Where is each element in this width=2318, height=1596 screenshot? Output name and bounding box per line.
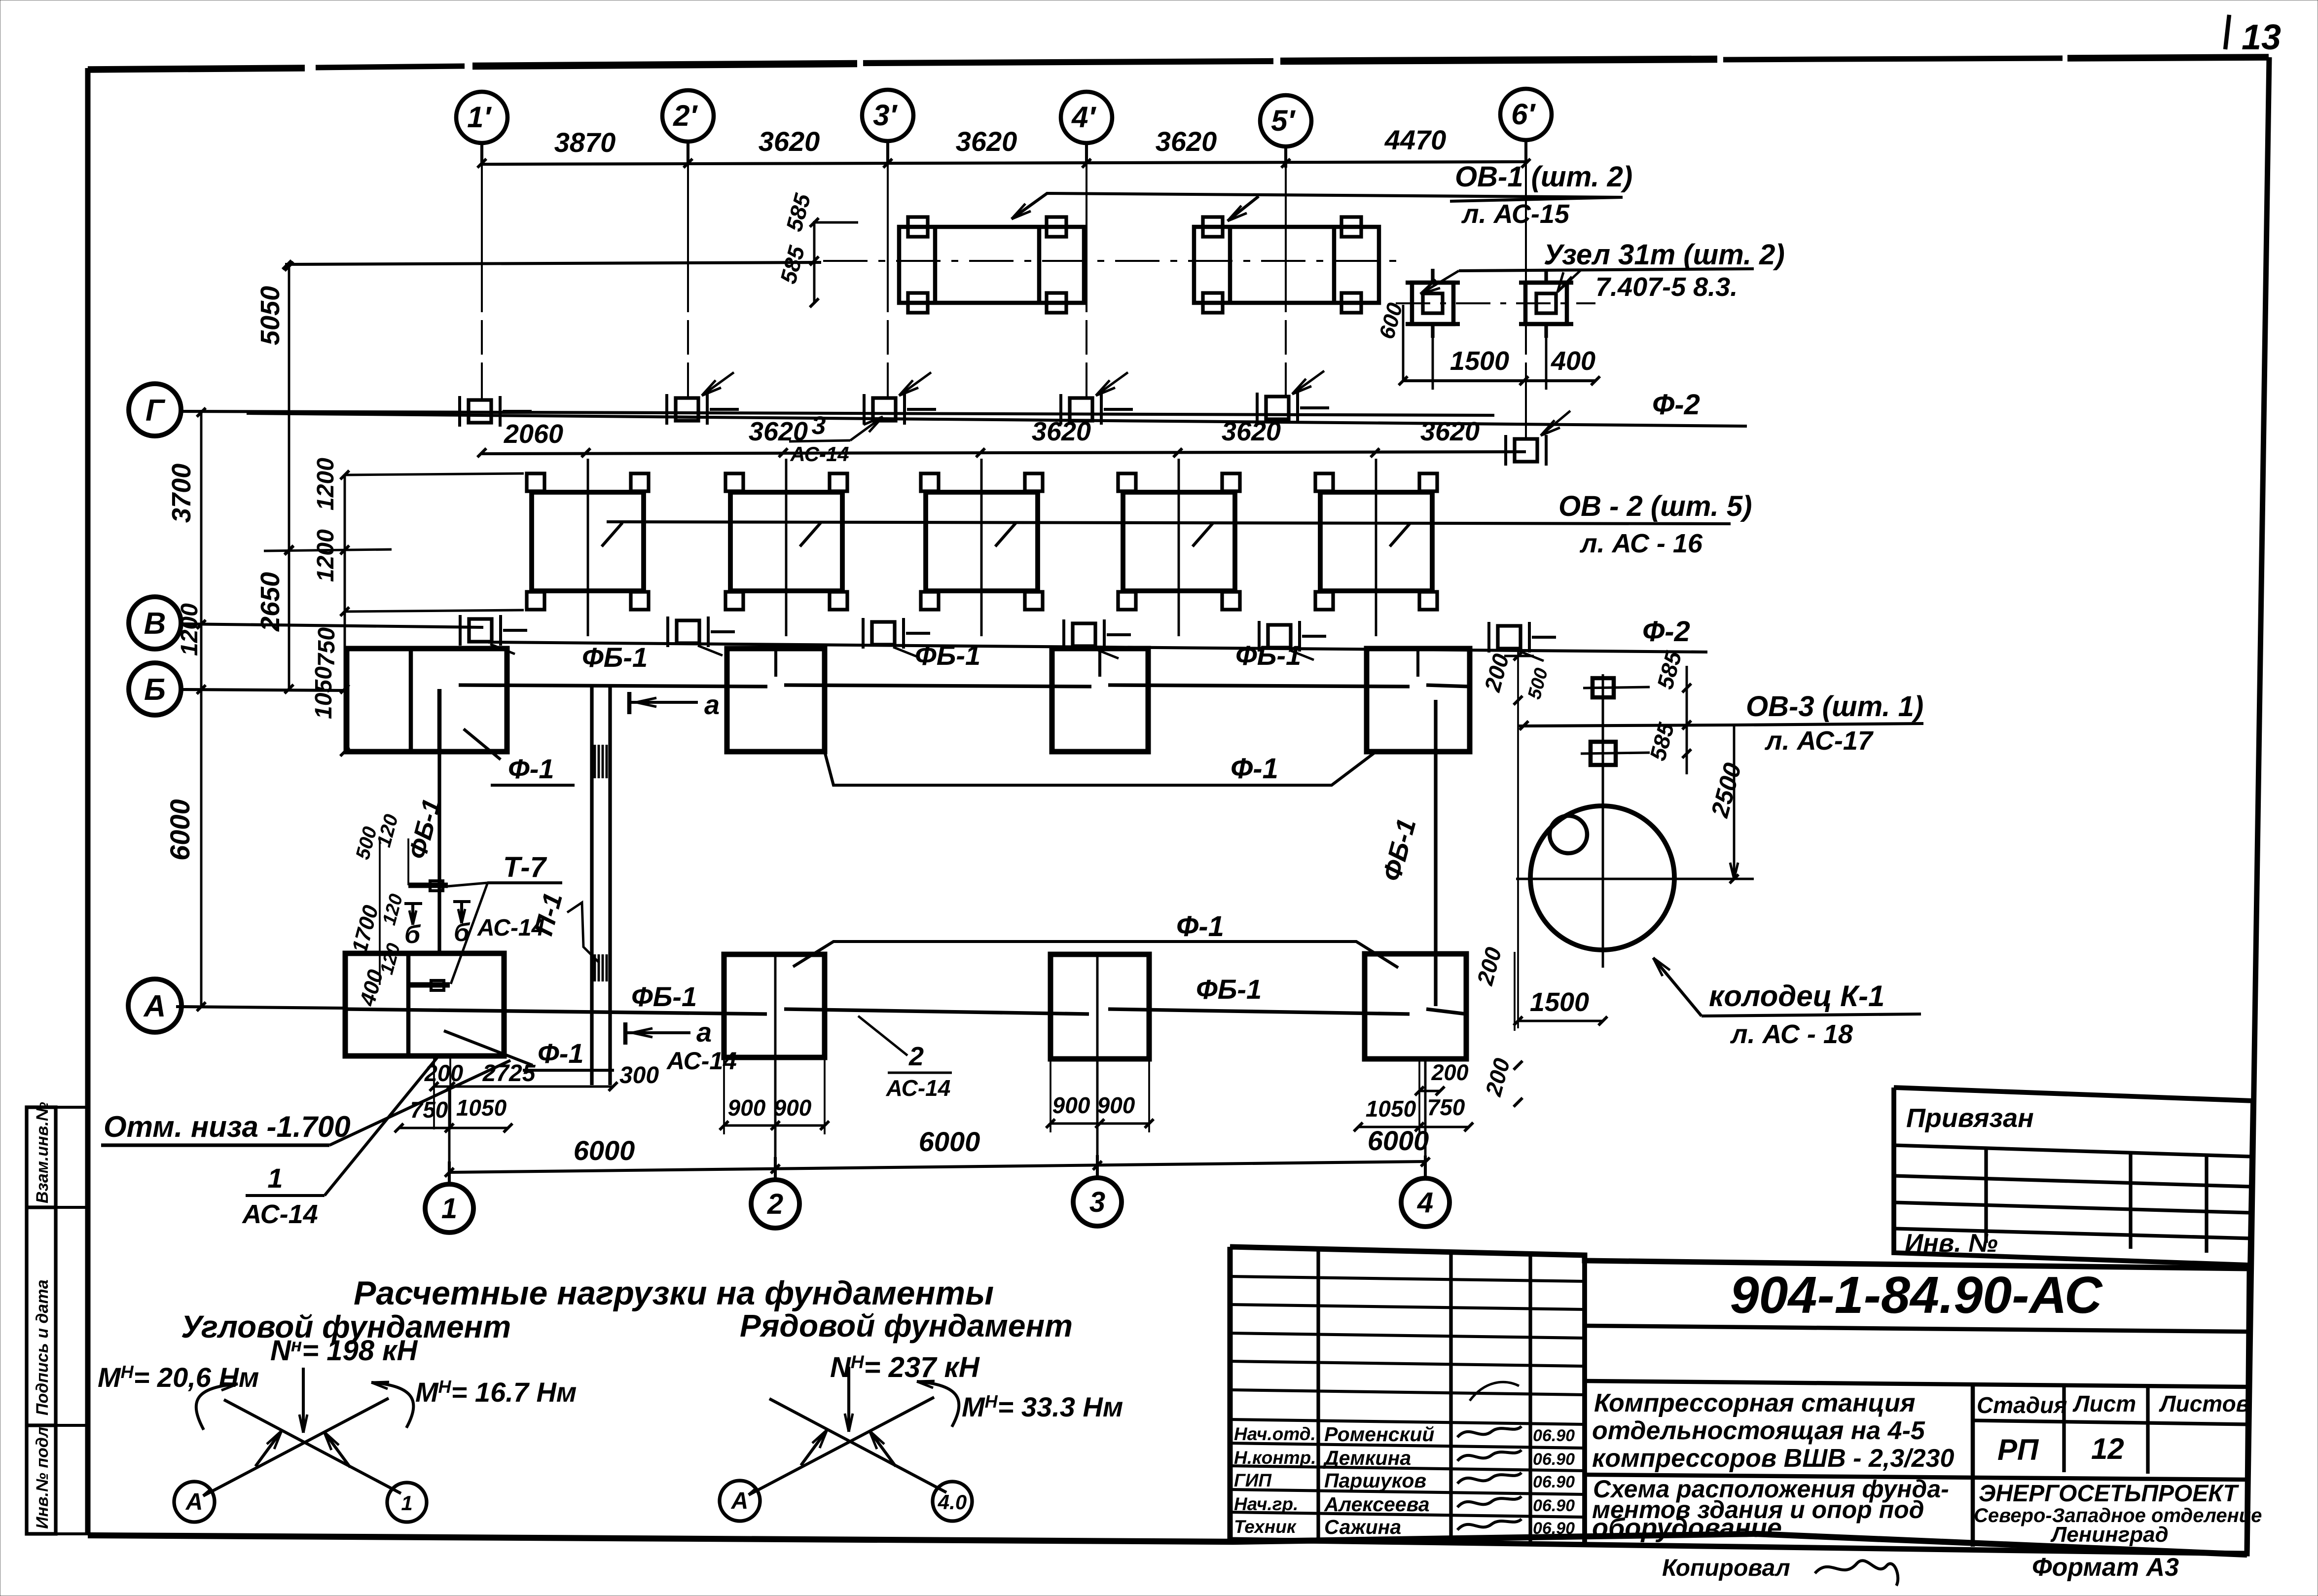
- svg-text:6000: 6000: [919, 1126, 980, 1157]
- load diagram row foundation (А/4.0): [769, 1399, 946, 1492]
- svg-text:б: б: [454, 918, 471, 947]
- axis line В stub: [181, 624, 483, 627]
- svg-text:06.90: 06.90: [1533, 1519, 1575, 1538]
- sidebar connector lines: [56, 1106, 88, 1109]
- svg-text:Техник: Техник: [1234, 1517, 1297, 1537]
- svg-text:а: а: [696, 1016, 712, 1048]
- axis circle 2' top: [662, 90, 714, 142]
- б arrow 1: [411, 904, 414, 925]
- svg-text:л. АС - 16: л. АС - 16: [1579, 529, 1703, 558]
- foundation Ф-1 corner (А/1): [345, 953, 504, 1056]
- svg-text:Ф-1: Ф-1: [538, 1038, 584, 1069]
- svg-text:Ленинград: Ленинград: [2050, 1523, 2169, 1547]
- title block vertical x2942: [1449, 1253, 1452, 1543]
- svg-text:06.90: 06.90: [1533, 1450, 1575, 1469]
- sheet border left: [85, 68, 91, 1535]
- axis circle 4' top: [1061, 92, 1112, 143]
- svg-text:Ф-2: Ф-2: [1642, 616, 1690, 648]
- svg-text:ФБ-1: ФБ-1: [1196, 974, 1262, 1005]
- svg-text:ОВ - 2 (шт. 5): ОВ - 2 (шт. 5): [1558, 490, 1752, 522]
- load diagram corner foundation (А/1): [224, 1400, 401, 1493]
- sidebar divider 2: [27, 1423, 56, 1427]
- svg-text:л. АС-17: л. АС-17: [1764, 726, 1874, 756]
- svg-text:Ф-2: Ф-2: [1652, 389, 1700, 421]
- left dim line x408: [200, 410, 203, 1007]
- dim 200/2725/300 line y2203: [434, 1086, 613, 1088]
- svg-text:Б: Б: [144, 673, 166, 707]
- ОВ-1 label leader line: [1012, 193, 1623, 219]
- svg-text:Взам.инв.№: Взам.инв.№: [33, 1102, 52, 1203]
- axis circle &#1042; left: [129, 597, 181, 649]
- row Г dim line y918: [482, 452, 1526, 454]
- dim 1050/750 under А4: [1358, 1126, 1469, 1128]
- Т-7 embedded plate lower: [408, 982, 450, 988]
- beam line ФБ-1 row Б: [459, 685, 767, 687]
- arc arrow right (М 33.3): [917, 1381, 959, 1427]
- узел leader 1: [1420, 271, 1459, 294]
- axis circle 4 bottom: [1401, 1178, 1449, 1227]
- squiggle curve in sig area: [1470, 1382, 1519, 1401]
- svg-text:300: 300: [619, 1062, 659, 1088]
- anchor bolt row Г axis 6': [1515, 439, 1537, 462]
- svg-text:2060: 2060: [504, 419, 563, 449]
- leader to anchor row В: [1094, 649, 1119, 658]
- dim 6000 line bottom: [449, 1161, 1425, 1172]
- svg-text:Ф-1: Ф-1: [1231, 753, 1278, 785]
- svg-text:6000: 6000: [574, 1135, 635, 1166]
- svg-text:ОВ-1 (шт. 2): ОВ-1 (шт. 2): [1455, 161, 1632, 193]
- колодец cross vertical: [1602, 674, 1604, 968]
- узел leader 2: [1557, 270, 1581, 292]
- svg-text:л. АС - 18: л. АС - 18: [1730, 1019, 1853, 1049]
- узел 31т anchor 2: [1525, 283, 1567, 324]
- svg-text:4.0: 4.0: [938, 1490, 967, 1514]
- svg-text:4′: 4′: [1071, 101, 1096, 134]
- svg-text:ФБ-1: ФБ-1: [915, 640, 980, 671]
- dim tick line y963 to small square: [345, 473, 524, 475]
- svg-text:Ф-1: Ф-1: [508, 753, 554, 784]
- stadia header cells: [1973, 1420, 2249, 1424]
- axis 4' vertical line: [1086, 164, 1087, 398]
- svg-text:400: 400: [1551, 346, 1595, 376]
- svg-text:6000: 6000: [164, 799, 195, 861]
- vertical beam ФБ-1 axis4 Б-А: [1434, 700, 1437, 1006]
- svg-text:Формат А3: Формат А3: [2032, 1553, 2179, 1582]
- foundation Ф-1 (А/2): [724, 954, 825, 1057]
- svg-text:Лист: Лист: [2072, 1391, 2136, 1416]
- leader arrow to anchor row Г: [899, 372, 931, 396]
- svg-text:6′: 6′: [1511, 98, 1536, 131]
- svg-text:2: 2: [767, 1188, 783, 1220]
- arc arrow left (М 20,6): [196, 1384, 238, 1430]
- dim tick line y1115: [264, 549, 392, 551]
- svg-text:АС-14: АС-14: [666, 1047, 737, 1075]
- svg-text:900: 900: [728, 1095, 766, 1121]
- svg-text:ФБ-1: ФБ-1: [631, 981, 697, 1012]
- equipment ОВ-2 square #5: [1320, 492, 1432, 591]
- узел 31т anchor 1: [1412, 283, 1453, 324]
- svg-text:ГИП: ГИП: [1234, 1470, 1272, 1490]
- anchor bolt Ф-2 row В #1: [469, 619, 492, 642]
- left dim line x586: [288, 264, 290, 689]
- leader to anchor row В: [698, 646, 723, 655]
- svg-text:РП: РП: [1997, 1433, 2039, 1466]
- svg-text:13: 13: [2242, 18, 2281, 57]
- axis circle 1 bottom: [425, 1184, 473, 1233]
- anchor bolt Ф-2 row Г #2: [676, 398, 698, 421]
- leader arrow to anchor row Г: [702, 372, 734, 396]
- leader arrow to anchor 6' row Г: [1541, 411, 1570, 435]
- svg-text:ФБ-1: ФБ-1: [582, 642, 648, 673]
- leader to anchor row В: [490, 644, 515, 654]
- ОВ-3 connector vertical: [1602, 697, 1604, 805]
- svg-text:200: 200: [424, 1060, 463, 1086]
- svg-text:оборудование: оборудование: [1592, 1513, 1782, 1543]
- axis 5' vertical line: [1285, 164, 1287, 396]
- svg-text:3620: 3620: [956, 126, 1017, 157]
- svg-text:Копировал: Копировал: [1662, 1555, 1790, 1581]
- axis line Б stub: [180, 689, 347, 690]
- foundation Ф-1 (Б/2): [727, 649, 825, 752]
- svg-text:750: 750: [410, 1097, 448, 1123]
- dim 900/900 under А3: [1050, 1123, 1149, 1125]
- axis 6' vertical line: [1525, 164, 1527, 438]
- anchor bolt Ф-2 row Г #3: [873, 398, 896, 421]
- axis 4 vertical line: [1424, 1059, 1427, 1178]
- svg-text:Нач.гр.: Нач.гр.: [1234, 1494, 1298, 1514]
- Ф-1 label foundation А1: [444, 1031, 533, 1065]
- axis circle 6' top: [1500, 89, 1552, 140]
- dim 200 small under А4: [1419, 1090, 1440, 1092]
- anchor bolt Ф-2 row В #3: [872, 622, 895, 645]
- svg-text:А: А: [143, 989, 166, 1023]
- equipment ОВ-2 square #1: [532, 492, 644, 591]
- axis 2 vertical line: [774, 954, 777, 1180]
- svg-text:1050: 1050: [1366, 1096, 1416, 1122]
- leader to anchor row В: [1289, 650, 1314, 660]
- svg-text:750: 750: [314, 627, 340, 667]
- svg-text:900: 900: [1052, 1092, 1090, 1118]
- svg-text:АС-14: АС-14: [886, 1075, 951, 1101]
- колодец small circle: [1550, 816, 1587, 853]
- foundation Ф-1 (Б/3): [1052, 649, 1148, 752]
- svg-text:3620: 3620: [759, 126, 820, 157]
- axis circle &#1041; left: [129, 663, 181, 715]
- ОВ-1 label leader branch 2: [1228, 196, 1259, 221]
- anchor bolt Ф-2 row В #4: [1073, 623, 1095, 646]
- svg-text:Отм. низа -1.700: Отм. низа -1.700: [104, 1110, 351, 1143]
- axis line А stub: [176, 1007, 345, 1008]
- svg-text:3620: 3620: [1032, 417, 1091, 446]
- anchor bolt Ф-2 row В #2: [677, 620, 699, 643]
- dim 900/900 under А2: [724, 1124, 825, 1127]
- equipment ОВ-1 unit 1 outline: [899, 227, 1084, 303]
- Привязан table outline: [1894, 1088, 2253, 1265]
- svg-text:ОВ-3 (шт. 1): ОВ-3 (шт. 1): [1746, 690, 1923, 723]
- svg-text:2: 2: [908, 1042, 924, 1071]
- svg-text:Стадия: Стадия: [1977, 1392, 2067, 1418]
- svg-text:3: 3: [1089, 1186, 1105, 1218]
- svg-text:АС-14: АС-14: [477, 915, 544, 941]
- svg-text:Н.контр.: Н.контр.: [1234, 1448, 1316, 1468]
- svg-text:200: 200: [1431, 1060, 1468, 1085]
- svg-text:3700: 3700: [167, 464, 196, 523]
- svg-text:ЭНЕРГОСЕТЬПРОЕКТ: ЭНЕРГОСЕТЬПРОЕКТ: [1979, 1481, 2239, 1507]
- foundation Б2 centre stub: [774, 649, 777, 677]
- equipment ОВ-1 unit 2 outline: [1194, 227, 1379, 303]
- svg-text:1500: 1500: [1450, 346, 1509, 376]
- Ф-2 leader line row Г: [247, 413, 1747, 426]
- Ф-2 leader line row В: [488, 642, 1707, 652]
- title block vertical x3103: [1528, 1254, 1532, 1544]
- svg-text:Т-7: Т-7: [503, 851, 547, 883]
- svg-text:Рядовой фундамент: Рядовой фундамент: [740, 1308, 1073, 1343]
- divider under stadia: [1585, 1475, 2249, 1480]
- axis circle 3 bottom: [1073, 1178, 1122, 1226]
- svg-text:06.90: 06.90: [1533, 1473, 1575, 1491]
- axis 3 vertical line: [1096, 954, 1099, 1178]
- svg-text:Нач.отд.: Нач.отд.: [1234, 1424, 1316, 1444]
- anchor bolt Ф-2 row Г #4: [1070, 398, 1092, 421]
- sheet border right: [2247, 57, 2269, 1555]
- svg-text:1: 1: [267, 1162, 283, 1194]
- dim 750/1050 under А1: [399, 1127, 508, 1129]
- vertical split project/stadia: [1971, 1383, 1975, 1475]
- svg-text:Подпись и дата: Подпись и дата: [33, 1279, 52, 1415]
- svg-text:компрессоров ВШВ - 2,3/230: компрессоров ВШВ - 2,3/230: [1592, 1444, 1954, 1473]
- svg-text:А: А: [185, 1489, 203, 1515]
- organization cell split: [1971, 1475, 1975, 1547]
- sidebar box: [27, 1107, 56, 1534]
- section cut а lower flag: [623, 1022, 628, 1045]
- axis circle &#1040; left: [128, 979, 181, 1032]
- title block signature rows: [1230, 1276, 1585, 1281]
- svg-text:5′: 5′: [1271, 104, 1296, 137]
- svg-text:Сажина: Сажина: [1324, 1516, 1401, 1538]
- svg-text:900: 900: [1097, 1092, 1135, 1118]
- foundation Б4 centre stub: [1416, 649, 1419, 677]
- svg-text:А: А: [731, 1488, 749, 1514]
- svg-text:Алексеева: Алексеева: [1324, 1493, 1430, 1516]
- title block vertical x2673: [1316, 1250, 1320, 1541]
- б arrow 2: [460, 902, 463, 923]
- svg-text:900: 900: [774, 1095, 812, 1121]
- axis circle 3' top: [862, 90, 913, 141]
- svg-text:3′: 3′: [873, 99, 898, 132]
- equipment ОВ-2 square #4: [1123, 492, 1235, 591]
- Ф-1 trapezoid leader row А: [793, 942, 1398, 968]
- svg-text:отдельностоящая на 4-5: отдельностоящая на 4-5: [1592, 1416, 1925, 1445]
- svg-text:3620: 3620: [1222, 417, 1281, 446]
- foundation Б3 centre stub: [1098, 649, 1101, 677]
- svg-text:а: а: [704, 689, 720, 720]
- sidebar divider 1: [27, 1205, 56, 1209]
- svg-text:12: 12: [2091, 1432, 2124, 1465]
- узел dim line 1500/400: [1403, 379, 1595, 382]
- svg-text:Привязан: Привязан: [1906, 1103, 2034, 1133]
- ОВ-1 dim line x1651 585/585: [813, 221, 816, 304]
- horizontal ref line y536: [285, 262, 821, 264]
- svg-text:750: 750: [1427, 1094, 1465, 1120]
- anchor bolt Ф-2 row Г #1: [469, 400, 491, 423]
- svg-text:3620: 3620: [1420, 417, 1480, 446]
- svg-text:4470: 4470: [1384, 124, 1447, 155]
- ОВ-3 small square lower: [1591, 742, 1616, 765]
- svg-text:4: 4: [1417, 1187, 1433, 1219]
- axis circle 2 bottom: [751, 1180, 799, 1228]
- foundation Ф-1 (А/3): [1050, 954, 1149, 1059]
- foundation Ф-1 (Б/4): [1367, 649, 1470, 752]
- svg-text:колодец К-1: колодец К-1: [1709, 979, 1884, 1013]
- axis line Г: [181, 411, 1494, 415]
- svg-text:1: 1: [441, 1193, 457, 1225]
- svg-text:7.407-5 8.3.: 7.407-5 8.3.: [1595, 272, 1738, 302]
- svg-text:1200: 1200: [313, 529, 339, 582]
- anchor bolt Ф-2 row Г #5: [1266, 397, 1289, 419]
- колодец К-1 circle: [1530, 806, 1674, 950]
- axis 2' vertical line: [687, 164, 689, 398]
- svg-text:5050: 5050: [255, 286, 285, 345]
- svg-text:1′: 1′: [467, 101, 492, 134]
- dim 1500 колодец: [1518, 1020, 1603, 1022]
- svg-text:2650: 2650: [255, 572, 285, 632]
- dim tick line y1240 to small square: [345, 610, 524, 612]
- svg-text:Паршуков: Паршуков: [1324, 1469, 1426, 1492]
- svg-text:6000: 6000: [1368, 1125, 1429, 1156]
- svg-text:АС-14: АС-14: [790, 442, 849, 466]
- arc arrow right (М 16.7): [371, 1382, 413, 1428]
- title block outline: [1230, 1247, 2249, 1554]
- П-1 channel vertical lines: [590, 686, 593, 1085]
- svg-text:2725: 2725: [482, 1060, 536, 1087]
- svg-text:Демкина: Демкина: [1323, 1447, 1411, 1469]
- leader arrow to anchor row Г: [1292, 371, 1324, 394]
- axis 3' vertical line: [887, 164, 889, 398]
- axis circle &#1043; left: [129, 384, 181, 436]
- Ф-1 label foundation Б1: [464, 729, 501, 760]
- svg-text:АС-14: АС-14: [241, 1199, 318, 1229]
- axis 1 vertical line: [448, 1087, 451, 1185]
- svg-text:3870: 3870: [554, 127, 616, 158]
- anchor bolt Ф-2 row В #6: [1498, 626, 1521, 649]
- svg-text:1050: 1050: [311, 666, 337, 719]
- svg-text:3: 3: [812, 411, 826, 440]
- svg-text:06.90: 06.90: [1533, 1496, 1575, 1515]
- svg-text:Компрессорная станция: Компрессорная станция: [1594, 1389, 1916, 1417]
- svg-text:1500: 1500: [1530, 987, 1589, 1017]
- anchor bolt Ф-2 row В #5: [1268, 625, 1291, 648]
- axis circle 1' top: [456, 92, 507, 143]
- Т-7 embedded plate upper: [408, 883, 448, 888]
- ОВ-3 small square upper: [1593, 678, 1614, 697]
- left dim line x699: [344, 475, 346, 752]
- узел anchors centerline: [1396, 302, 1595, 304]
- axis circle 5' top: [1260, 95, 1311, 146]
- svg-text:В: В: [144, 607, 166, 641]
- svg-text:904-1-84.90-АС: 904-1-84.90-АС: [1730, 1266, 2103, 1324]
- section cut а upper flag: [627, 692, 632, 714]
- foundation Ф-1 corner (Б/1): [347, 649, 507, 752]
- ОВ-2 label line: [607, 522, 1731, 524]
- svg-text:Расчетные нагрузки на фунда: Расчетные нагрузки на фундаменты: [354, 1274, 994, 1312]
- leader to anchor row В: [893, 647, 918, 657]
- title block vertical x3213: [1582, 1254, 1587, 1545]
- svg-text:Роменский: Роменский: [1324, 1423, 1434, 1446]
- svg-text:Инв.№ подл.: Инв.№ подл.: [33, 1422, 52, 1529]
- svg-text:1200: 1200: [313, 458, 339, 510]
- svg-text:л. АС-15: л. АС-15: [1461, 199, 1570, 229]
- svg-text:б: б: [404, 920, 421, 949]
- equipment ОВ-2 square #2: [730, 492, 842, 591]
- foundation Ф-1 (А/4): [1365, 954, 1466, 1059]
- equipment ОВ-2 square #3: [926, 492, 1038, 591]
- узел label underline: [1459, 269, 1754, 271]
- Привязан table rows: [1894, 1145, 2251, 1157]
- equipment centerline dash-dot: [823, 260, 1401, 262]
- sheet border top (rough dashed): [88, 57, 2269, 70]
- svg-text:3620: 3620: [1156, 126, 1217, 157]
- title mid divider: [1585, 1381, 2249, 1387]
- Ф-1 trapezoid leader row Б: [825, 752, 1376, 785]
- ОВ-3 label line: [1518, 725, 1731, 726]
- svg-text:1050: 1050: [456, 1095, 507, 1121]
- top dimension line axes 1'-6': [482, 162, 1526, 164]
- колодец cross horizontal: [1516, 878, 1754, 880]
- Привязан table columns: [1984, 1148, 1988, 1243]
- svg-text:1200: 1200: [177, 603, 203, 656]
- svg-text:Узел 31т (шт. 2): Узел 31т (шт. 2): [1544, 239, 1785, 271]
- svg-text:Ф-1: Ф-1: [1176, 910, 1224, 943]
- svg-text:06.90: 06.90: [1533, 1426, 1575, 1445]
- svg-text:2′: 2′: [673, 99, 698, 132]
- vertical beam ФБ-1 axis1 Б-А: [437, 752, 441, 953]
- svg-text:Г: Г: [145, 394, 166, 428]
- ОВ-3 dim vline x3420: [1686, 666, 1688, 774]
- svg-text:Листов: Листов: [2159, 1391, 2249, 1416]
- sheet border bottom: [88, 1534, 2247, 1555]
- svg-text:1: 1: [401, 1491, 412, 1515]
- svg-text:ФБ-1: ФБ-1: [1235, 640, 1301, 671]
- doc number band divider: [1585, 1326, 2249, 1332]
- axis 1' vertical line: [481, 164, 483, 399]
- beam line ФБ-1 row А: [345, 1009, 767, 1014]
- leader arrow to anchor row Г: [1096, 372, 1128, 396]
- leader to anchor row В: [1519, 651, 1544, 661]
- svg-text:Инв. №: Инв. №: [1905, 1229, 1998, 1258]
